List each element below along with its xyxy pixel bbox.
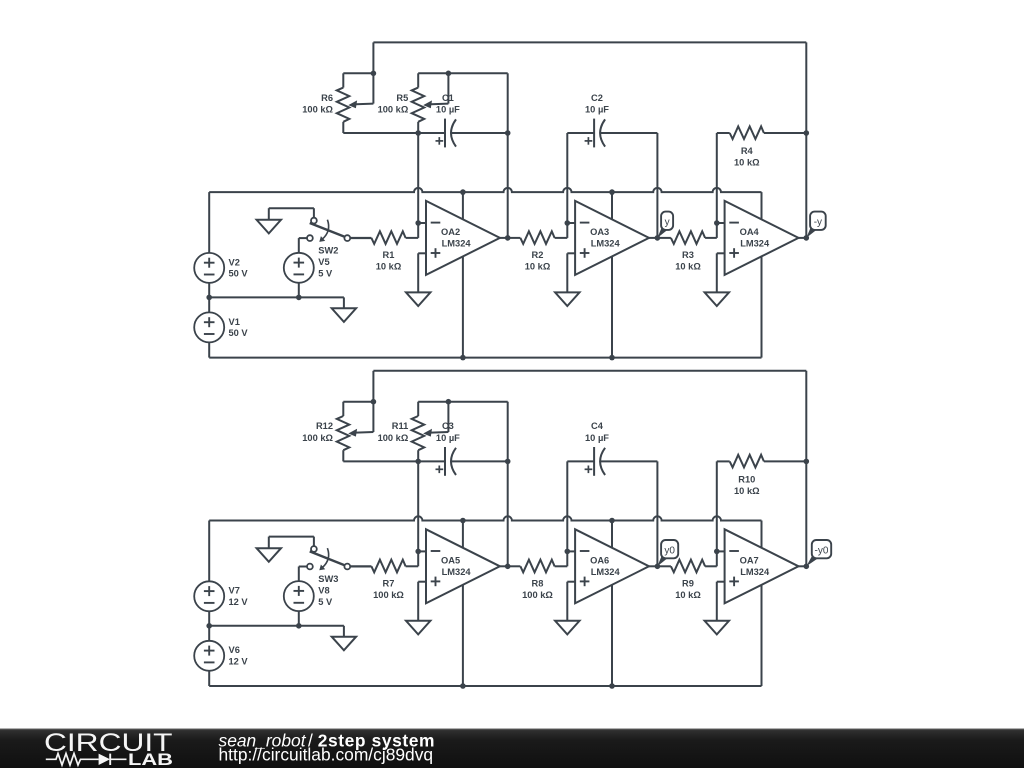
svg-text:SW3: SW3 (318, 574, 338, 584)
CircuitLab logo wire-resistor-diode glyph (46, 754, 127, 766)
svg-text:R2: R2 (532, 250, 544, 260)
wire OA2 power pins (462, 192, 464, 358)
wire C3 left down to OA5 inverting input (417, 461, 419, 551)
junction C3 right node (505, 459, 511, 465)
voltage source V1 (194, 312, 248, 342)
resistor R1 (350, 223, 418, 272)
wire R4 left down to OA4 inverting input (716, 133, 718, 223)
wire right drop to OA4 output (805, 42, 807, 238)
svg-text:10 kΩ: 10 kΩ (675, 590, 701, 600)
op-amp OA4 (717, 201, 807, 293)
wire right drop to OA7 output (805, 371, 807, 567)
junction OA3 V- on bottom rail (609, 355, 615, 361)
wire OA6 power pins (611, 521, 613, 687)
wire OA7 power pins (761, 521, 763, 687)
junction R10 right node (804, 459, 810, 465)
svg-text:10 µF: 10 µF (436, 433, 460, 443)
svg-text:C2: C2 (591, 93, 603, 103)
junction OA5 inverting input (415, 549, 421, 555)
svg-text:R11: R11 (392, 421, 409, 431)
wire bottom rail -V2 (209, 685, 761, 687)
CircuitLab logo text LAB (128, 751, 173, 768)
svg-text:LM324: LM324 (591, 567, 621, 577)
junction OA2 V- on bottom rail (460, 355, 466, 361)
switch SW2 (269, 208, 372, 256)
ground (switch SW3 throw) (257, 548, 281, 562)
capacitor C2 (567, 93, 657, 148)
resistor R4 (717, 126, 807, 167)
wire ground row (209, 296, 344, 298)
wire top feedback rail (373, 370, 806, 372)
capacitor C3 (418, 421, 508, 476)
junction OA2 inverting input (415, 220, 421, 226)
svg-text:10 kΩ: 10 kΩ (734, 486, 760, 496)
junction OA5 output (505, 564, 511, 570)
svg-text:10 kΩ: 10 kΩ (376, 262, 402, 272)
wire V7 top stub (208, 521, 210, 582)
wire C4 right down to OA6 output (656, 461, 658, 566)
wire C2 left down to OA3 inverting input (566, 133, 568, 223)
ground (V5 return) (332, 297, 356, 322)
node y label (657, 212, 673, 238)
wire block right vertical upper (507, 73, 509, 133)
svg-text:C4: C4 (591, 421, 604, 431)
junction V7/V6 ground node (206, 623, 212, 629)
junction OA3 V+ on rail (609, 189, 615, 195)
svg-text:12 V: 12 V (229, 657, 249, 667)
svg-text:http://circuitlab.com/cj89dvq: http://circuitlab.com/cj89dvq (219, 744, 434, 764)
svg-text:V6: V6 (229, 645, 240, 655)
svg-text:OA7: OA7 (740, 556, 759, 566)
wire V1 bottom stub (208, 342, 210, 357)
svg-text:100 kΩ: 100 kΩ (373, 590, 404, 600)
junction OA2 V+ on rail (460, 189, 466, 195)
voltage source V7 (194, 581, 248, 611)
svg-text:R4: R4 (741, 146, 754, 156)
wire R12 wiper drop (372, 402, 374, 432)
ground (switch SW2 throw) (257, 220, 281, 234)
op-amp OA3 (567, 201, 657, 293)
ground (OA4 non-inverting input) (705, 292, 729, 306)
potentiometer R5 (378, 73, 449, 133)
svg-text:50 V: 50 V (229, 328, 249, 338)
wire OA4 power pins (761, 192, 763, 358)
svg-text:LM324: LM324 (740, 567, 770, 577)
svg-text:V1: V1 (229, 317, 240, 327)
junction R12 wiper tie (371, 399, 377, 405)
wire mid supply rail +V (209, 188, 761, 192)
wire C4 left down to OA6 inverting input (566, 461, 568, 551)
svg-text:C1: C1 (442, 93, 454, 103)
ground (V8 return) (332, 626, 356, 651)
op-amp OA2 (418, 201, 508, 293)
wire R6 bottom to node (343, 132, 418, 134)
junction V8 ground node (296, 623, 302, 629)
switch SW3 (269, 537, 372, 585)
svg-text:R5: R5 (396, 93, 408, 103)
wire R12 top (343, 401, 373, 403)
resistor R10 (717, 455, 807, 496)
wire V2-V1 link (208, 283, 210, 313)
junction C1 left node (415, 130, 421, 136)
wire top rail left drop (372, 371, 374, 402)
node -y junction (OA4 output) (804, 235, 810, 241)
wire C1 left down to OA2 inverting input (417, 133, 419, 223)
resistor R9 (657, 551, 716, 600)
ground (OA5 non-inverting input) (406, 621, 430, 635)
svg-text:OA5: OA5 (441, 556, 460, 566)
resistor R3 (657, 223, 716, 272)
svg-text:R7: R7 (383, 579, 395, 589)
svg-text:LM324: LM324 (442, 239, 472, 249)
junction OA6 inverting input (565, 549, 571, 555)
ground (OA7 non-inverting input) (705, 621, 729, 635)
svg-text:100 kΩ: 100 kΩ (522, 590, 553, 600)
wire R10 left down to OA7 inverting input (716, 461, 718, 551)
wire OA3 power pins (611, 192, 613, 358)
footer url (219, 744, 434, 764)
svg-text:C3: C3 (442, 421, 454, 431)
svg-text:OA6: OA6 (590, 556, 609, 566)
wire V6 bottom stub (208, 671, 210, 686)
wire R12 bottom to node (343, 460, 418, 462)
svg-text:R8: R8 (532, 579, 544, 589)
svg-text:10 µF: 10 µF (585, 433, 609, 443)
wire R5 wiper drop (447, 73, 449, 103)
op-amp OA6 (567, 529, 657, 621)
footer title sean_robot / 2step system (219, 730, 436, 750)
potentiometer R12 (302, 402, 373, 462)
node -y0 label (806, 540, 831, 566)
resistor R8 (508, 551, 568, 600)
potentiometer R11 (378, 402, 449, 462)
wire R6 top (343, 72, 373, 74)
svg-text:LAB: LAB (128, 751, 173, 768)
junction OA6 V+ on rail (609, 518, 615, 524)
wire ground row (209, 625, 344, 627)
wire OA5 power pins (462, 521, 464, 687)
wire R11 wiper drop (447, 402, 449, 432)
svg-text:V5: V5 (318, 257, 329, 267)
svg-text:R1: R1 (383, 250, 395, 260)
svg-text:OA3: OA3 (590, 227, 609, 237)
svg-text:LM324: LM324 (442, 567, 472, 577)
svg-text:OA4: OA4 (740, 227, 760, 237)
svg-text:100 kΩ: 100 kΩ (378, 104, 409, 114)
potentiometer R6 (302, 73, 373, 133)
junction OA3 inverting input (565, 220, 571, 226)
svg-text:100 kΩ: 100 kΩ (302, 433, 333, 443)
wire mid supply rail +V2 (209, 516, 761, 520)
ground (OA2 non-inverting input) (406, 292, 430, 306)
node y0 junction (OA6 output) (655, 564, 661, 570)
svg-text:10 µF: 10 µF (585, 104, 609, 114)
wire V2 top stub (208, 192, 210, 253)
svg-text:10 kΩ: 10 kΩ (675, 262, 701, 272)
svg-text:R10: R10 (738, 474, 755, 484)
svg-text:10 µF: 10 µF (436, 104, 460, 114)
junction R4 right node (804, 130, 810, 136)
op-amp OA7 (717, 529, 807, 621)
wire bottom rail -V (209, 357, 761, 359)
svg-text:12 V: 12 V (229, 597, 249, 607)
svg-text:-y: -y (814, 217, 822, 228)
svg-text:10 kΩ: 10 kΩ (734, 158, 760, 168)
junction OA6 V- on bottom rail (609, 683, 615, 689)
svg-text:-y0: -y0 (815, 545, 829, 556)
svg-text:V2: V2 (229, 257, 240, 267)
voltage source V6 (194, 641, 248, 671)
junction V5 ground node (296, 295, 302, 301)
svg-text:y0: y0 (664, 545, 675, 556)
capacitor C4 (567, 421, 657, 476)
svg-text:50 V: 50 V (229, 269, 249, 279)
junction OA7 inverting input (714, 549, 720, 555)
wire R5/C1 block top (418, 72, 508, 74)
junction OA5 V+ on rail (460, 518, 466, 524)
svg-text:R9: R9 (682, 579, 694, 589)
svg-text:R3: R3 (682, 250, 694, 260)
op-amp OA5 (418, 529, 508, 621)
node y0 label (657, 540, 678, 566)
resistor R7 (350, 551, 418, 600)
node -y0 junction (OA7 output) (804, 564, 810, 570)
capacitor C1 (418, 93, 508, 148)
junction C3 left node (415, 459, 421, 465)
svg-text:100 kΩ: 100 kΩ (302, 104, 333, 114)
node -y label (806, 212, 825, 238)
junction C1 right node (505, 130, 511, 136)
CircuitLab logo text CIRCUIT (44, 729, 173, 757)
voltage source V2 (194, 253, 248, 283)
svg-text:LM324: LM324 (591, 239, 621, 249)
voltage source V8 (284, 567, 333, 626)
resistor R2 (508, 223, 568, 272)
svg-text:y: y (665, 217, 670, 228)
svg-text:5 V: 5 V (318, 597, 333, 607)
wire top feedback rail (373, 41, 806, 43)
wire V7-V6 link (208, 611, 210, 641)
svg-text:LM324: LM324 (740, 239, 770, 249)
footer bar (0, 729, 1024, 768)
svg-text:V7: V7 (229, 586, 240, 596)
wire top rail left drop (372, 42, 374, 73)
wire C2 right down to OA3 output (656, 133, 658, 238)
junction OA5 V- on bottom rail (460, 683, 466, 689)
wire block right vertical upper (507, 402, 509, 462)
svg-text:OA2: OA2 (441, 227, 460, 237)
svg-text:5 V: 5 V (318, 268, 333, 278)
junction OA2 output (505, 235, 511, 241)
svg-text:R12: R12 (316, 421, 333, 431)
node y junction (OA3 output) (655, 235, 661, 241)
voltage source V5 (284, 238, 333, 297)
svg-text:V8: V8 (318, 585, 329, 595)
svg-text:R6: R6 (321, 93, 333, 103)
wire R11/C3 block top (418, 401, 508, 403)
svg-text:100 kΩ: 100 kΩ (378, 433, 409, 443)
svg-text:SW2: SW2 (318, 246, 338, 256)
wire R6 wiper drop (372, 73, 374, 103)
junction OA4 inverting input (714, 220, 720, 226)
svg-text:10 kΩ: 10 kΩ (525, 262, 551, 272)
ground (OA6 non-inverting input) (555, 621, 579, 635)
wire C1 right down to OA2 output (507, 133, 509, 238)
junction R6 wiper tie (371, 71, 377, 77)
wire C3 right down to OA5 output (507, 461, 509, 566)
junction R5 wiper tie (446, 71, 452, 77)
ground (OA3 non-inverting input) (555, 292, 579, 306)
junction R11 wiper tie (446, 399, 452, 405)
junction V2/V1 ground node (206, 295, 212, 301)
